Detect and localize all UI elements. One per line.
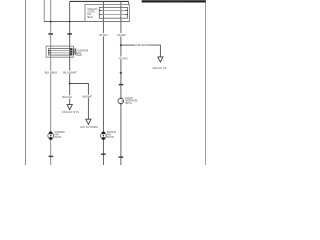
svg-text:RELAY: RELAY	[87, 15, 93, 19]
svg-text:FAN A/C SYS: FAN A/C SYS	[62, 110, 79, 114]
svg-text:RELAY: RELAY	[76, 53, 82, 57]
svg-text:YEL/WHT: YEL/WHT	[136, 43, 149, 47]
svg-text:BLK/WHT: BLK/WHT	[83, 94, 93, 98]
svg-text:BLU/BLK: BLU/BLK	[45, 70, 58, 74]
svg-text:MOTOR: MOTOR	[54, 135, 61, 139]
svg-text:BLU/WHT: BLU/WHT	[63, 70, 77, 74]
svg-text:A/C SYSTEM: A/C SYSTEM	[80, 125, 98, 129]
svg-text:YEL/WHT: YEL/WHT	[117, 33, 126, 37]
svg-text:FAN A/C KS: FAN A/C KS	[153, 66, 167, 70]
svg-text:BLU/WHT: BLU/WHT	[99, 33, 107, 37]
svg-text:SWITCH: SWITCH	[125, 101, 132, 105]
svg-text:BLK/YEL: BLK/YEL	[63, 95, 73, 99]
svg-text:MOTOR: MOTOR	[107, 135, 114, 139]
svg-text:HOT AT ALL TIMES: HOT AT ALL TIMES	[164, 0, 184, 2]
svg-text:YEL/GRN: YEL/GRN	[118, 56, 127, 60]
